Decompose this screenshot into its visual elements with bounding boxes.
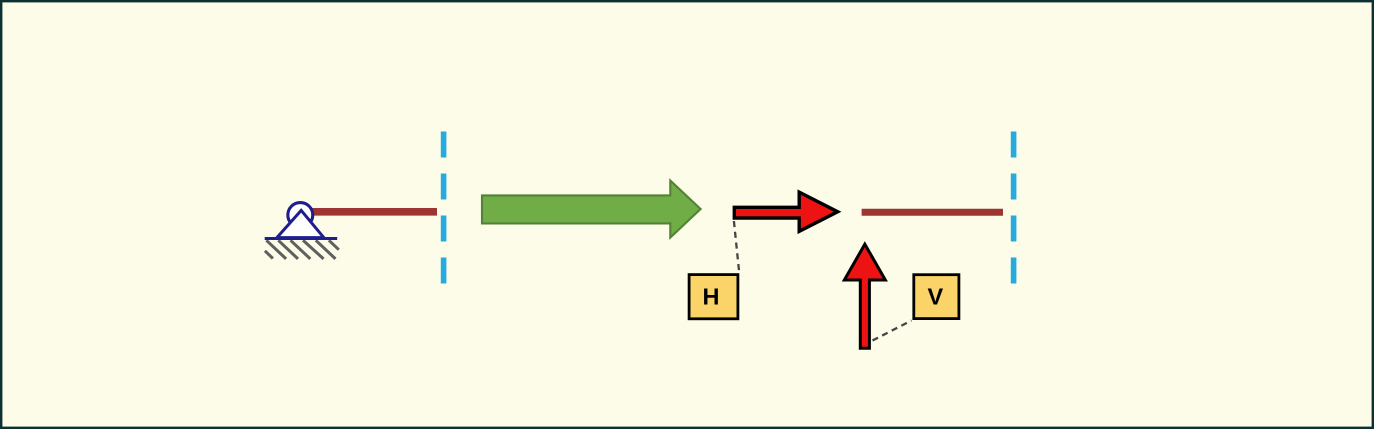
ground hatching	[265, 240, 339, 259]
section cut dashed line left	[441, 132, 447, 284]
svg-text:H: H	[703, 284, 720, 310]
beam right segment	[862, 209, 1003, 216]
green block arrow	[482, 181, 701, 238]
svg-text:V: V	[927, 284, 943, 310]
section cut dashed line right	[1011, 132, 1017, 284]
beam left segment	[301, 208, 437, 216]
pin circle	[288, 203, 313, 228]
ground line	[265, 237, 338, 240]
pin triangle	[277, 210, 324, 237]
V label box	[914, 275, 959, 319]
red horizontal arrow H	[734, 192, 837, 231]
H label box	[689, 275, 738, 319]
leader dashed to H box	[734, 221, 739, 273]
red vertical arrow V	[844, 244, 885, 348]
leader dashed to V box	[873, 321, 912, 341]
